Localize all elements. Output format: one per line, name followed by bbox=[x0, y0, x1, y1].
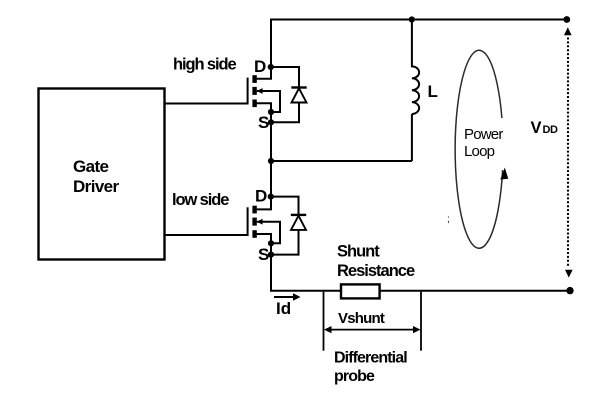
node bottom rail right end bbox=[566, 287, 573, 294]
D1 bottom connection wire bbox=[271, 103, 299, 123]
wire Q1 junction to S node bbox=[270, 112, 272, 122]
wire Q2 source down to bottom rail bbox=[271, 255, 570, 291]
svg-text:low side: low side bbox=[172, 191, 229, 209]
wire high S down to switch node bbox=[270, 122, 272, 161]
svg-text:Loop: Loop bbox=[464, 143, 495, 160]
node top rail to inductor bbox=[409, 16, 415, 22]
Q2 source lead bbox=[254, 234, 271, 243]
svg-text:D: D bbox=[255, 187, 267, 206]
D1 triangle bbox=[292, 88, 307, 102]
D2 triangle bbox=[291, 216, 306, 230]
svg-text:probe: probe bbox=[334, 368, 375, 385]
wire switch node to inductor bbox=[271, 160, 412, 162]
measurement Vshunt right tick bbox=[420, 292, 422, 351]
svg-text:Vshunt: Vshunt bbox=[338, 310, 385, 327]
node Q2 S bbox=[268, 252, 274, 258]
node Q2 source-body junction bbox=[268, 240, 274, 246]
wire Q2 junction to S node bbox=[270, 243, 272, 254]
Q1 body lead with arrow bbox=[257, 91, 280, 112]
resistor Rshunt bbox=[341, 284, 380, 298]
transistor Q2 low-side MOSFET bbox=[248, 197, 280, 244]
wire top rail bbox=[270, 19, 567, 21]
node Q1 source-body junction bbox=[268, 109, 274, 115]
node Q2 drain bbox=[268, 194, 274, 200]
node Q1 drain bbox=[268, 64, 274, 70]
Q1 drain lead bbox=[254, 67, 271, 79]
net VDD dotted dimension line bbox=[564, 27, 573, 277]
wire low-side gate from driver bbox=[165, 234, 248, 236]
D1 top connection wire bbox=[271, 67, 299, 88]
svg-text:Id: Id bbox=[276, 299, 291, 318]
transistor Q1 high-side MOSFET bbox=[248, 67, 280, 112]
power loop arrow bbox=[455, 50, 508, 248]
Q1 channel bar body bbox=[252, 87, 256, 95]
Q2 gate bar bbox=[247, 207, 249, 236]
svg-text:S: S bbox=[258, 113, 269, 132]
wire high-side gate from driver bbox=[165, 103, 248, 105]
inductor L1 bbox=[412, 20, 419, 115]
node top rail right end bbox=[563, 16, 570, 23]
svg-text:DD: DD bbox=[543, 124, 559, 136]
svg-text:high side: high side bbox=[173, 56, 236, 74]
svg-text:V: V bbox=[531, 119, 542, 137]
svg-text:Resistance: Resistance bbox=[337, 262, 415, 280]
D2 cathode bar bbox=[291, 214, 306, 216]
gate driver box U1 bbox=[39, 89, 165, 260]
Q2 drain lead bbox=[254, 197, 271, 210]
Q2 channel bar body bbox=[252, 218, 256, 226]
svg-text:Shunt: Shunt bbox=[337, 242, 380, 260]
Q2 channel bar drain bbox=[252, 206, 256, 214]
svg-text:;: ; bbox=[447, 214, 450, 225]
svg-text:Driver: Driver bbox=[73, 177, 120, 196]
node Q1 S bbox=[268, 119, 274, 125]
Q1 channel bar source bbox=[252, 100, 256, 108]
svg-text:Power: Power bbox=[464, 126, 503, 143]
wire high drain drop bbox=[270, 20, 272, 68]
D2 bottom connection wire bbox=[271, 230, 299, 255]
wire top rail drop to Q2 drain bbox=[270, 161, 272, 197]
arrow Id current bbox=[274, 296, 295, 298]
svg-text:L: L bbox=[428, 82, 438, 101]
D2 top connection wire bbox=[271, 197, 299, 215]
node switch junction bbox=[268, 158, 274, 164]
Q2 channel bar source bbox=[252, 230, 256, 238]
svg-text:D: D bbox=[254, 57, 266, 76]
measurement Vshunt left tick bbox=[323, 292, 325, 351]
Q1 source lead bbox=[254, 103, 271, 112]
Q1 gate bar bbox=[247, 78, 249, 105]
svg-text:Gate: Gate bbox=[73, 157, 109, 176]
svg-text:Differential: Differential bbox=[334, 350, 407, 367]
Q2 body lead with arrow bbox=[257, 222, 280, 244]
Q1 channel bar drain bbox=[252, 75, 256, 83]
diode D1 body diode of Q1 bbox=[271, 67, 307, 122]
diode D2 body diode of Q2 bbox=[271, 197, 306, 255]
measurement Vshunt double arrow bbox=[327, 329, 418, 331]
D1 cathode bar bbox=[291, 86, 306, 88]
svg-text:S: S bbox=[258, 245, 269, 264]
